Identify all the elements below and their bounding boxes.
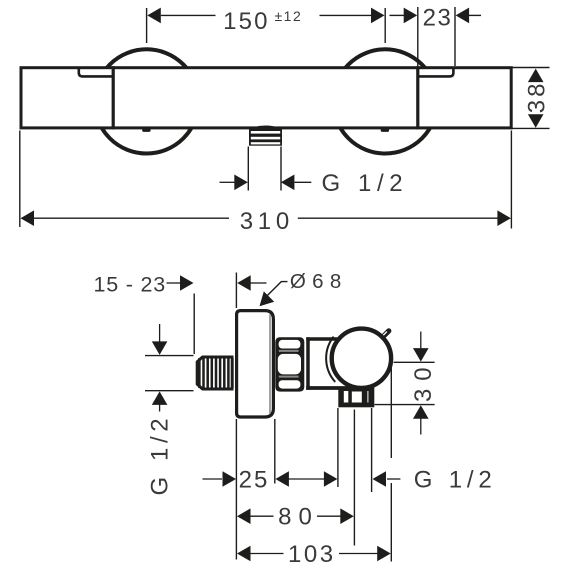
dim tail right (295, 181, 312, 183)
arrowhead 25 right (275, 471, 289, 487)
arrowhead G1/2 left (234, 175, 248, 191)
extension line outlet bottom (375, 404, 435, 406)
arrowhead 38 up (528, 69, 544, 83)
wall tab under left circle (142, 128, 150, 132)
arrowhead 103 right (377, 546, 391, 562)
dim line 103 right part (339, 553, 378, 555)
escutcheon circle right (333, 49, 437, 153)
handle knob circle (332, 329, 391, 388)
arrowhead 80 left (237, 508, 251, 524)
arrowhead 30 top (413, 348, 429, 362)
arrowhead 150 right (371, 8, 385, 24)
dim tail left (220, 181, 235, 183)
hex union nut (side) (275, 337, 304, 391)
dim tail below (420, 418, 422, 435)
arrowhead 23 right (456, 8, 470, 24)
arrowhead 103 left (237, 546, 251, 562)
body left edge (306, 337, 310, 390)
extension line plate front below (235, 419, 237, 560)
arrowhead G1/2 right (281, 175, 295, 191)
cartridge skirt arc (326, 337, 335, 382)
arrowhead 80 right (340, 508, 354, 524)
svg-text:38: 38 (523, 81, 550, 114)
arrowhead 23 left (404, 8, 418, 24)
svg-text:±12: ±12 (275, 8, 303, 24)
leader line diameter 68 (263, 282, 288, 301)
extension line outlet right (280, 147, 282, 191)
extension line nipple bottom (145, 390, 194, 392)
extension line outlet right below (371, 408, 373, 492)
extension line bar left (19, 131, 21, 228)
extension line circle-left centre (146, 8, 148, 43)
dim tail 15-23 (167, 282, 182, 284)
step mark right handle (418, 68, 453, 76)
dim line 80 right part (317, 515, 341, 517)
dim line 150 right part (320, 14, 372, 16)
outlet (side, below knob) (338, 387, 374, 407)
wall nipple G1/2 threaded (197, 357, 233, 389)
divider left handle (112, 66, 115, 129)
dim tail G1/2 right (387, 478, 400, 480)
arrowhead 38 down (528, 114, 544, 128)
extension line bar bottom right (513, 127, 550, 129)
wall tab under right circle (381, 128, 389, 132)
extension line bar right (510, 131, 512, 229)
dim tail after plate face (251, 282, 267, 284)
svg-text:103: 103 (288, 541, 336, 568)
escutcheon plate (side) (237, 311, 274, 417)
dim tail 23 left (390, 14, 405, 16)
arrowhead 30 bottom (413, 405, 429, 419)
dim line 310 left part (34, 217, 230, 219)
svg-text:G 1/2: G 1/2 (146, 414, 173, 496)
dim line 103 left part (250, 553, 284, 555)
step mark left handle (79, 68, 113, 76)
extension line right divider (417, 7, 419, 66)
outlet nipple G1/2 below bar (threaded, front view) (249, 126, 282, 146)
extension line nipple face (193, 294, 195, 355)
handle pin (385, 331, 389, 335)
svg-text:80: 80 (278, 504, 319, 531)
extension line circle-right centre (384, 8, 386, 43)
arrowhead 25 left (223, 471, 237, 487)
svg-text:G 1/2: G 1/2 (414, 467, 497, 494)
extension line step tick (454, 7, 456, 66)
svg-text:23: 23 (423, 4, 453, 31)
arrowhead outlet left (324, 471, 338, 487)
extension line knob front below (390, 362, 392, 458)
body top edge (306, 337, 343, 341)
arrowhead 150 left (147, 8, 161, 24)
extension line outlet mid below (353, 410, 355, 546)
extension line outlet left below (337, 408, 339, 487)
svg-text:150: 150 (223, 8, 270, 35)
arrowhead outlet right (373, 471, 387, 487)
nipple thread lines (198, 358, 201, 388)
dim line between 25 and G1/2 (288, 478, 325, 480)
escutcheon circle left (95, 49, 199, 153)
extension line outlet left (247, 147, 249, 191)
plate inner face line (269, 315, 271, 414)
extension line nipple top (145, 355, 194, 357)
arrowhead 310 right (497, 210, 511, 226)
svg-text:15 - 23: 15 - 23 (94, 273, 167, 297)
dim line 150 left part (161, 14, 216, 16)
extension line plate back below (274, 419, 276, 484)
svg-text:310: 310 (240, 208, 294, 235)
dim line 80 left part (250, 515, 274, 517)
svg-text:30: 30 (410, 359, 437, 402)
nipple outline (197, 357, 233, 389)
mixer bar body (21, 68, 511, 128)
dim tail above (159, 324, 161, 343)
arrowhead 310 left (21, 210, 35, 226)
dim tail 25 left (203, 478, 223, 480)
arrowhead plate face (237, 275, 251, 291)
dim tail below (159, 405, 161, 412)
arrowhead 15-23 (180, 275, 194, 291)
extension line knob axis (394, 361, 435, 363)
dim tail 23 right (469, 14, 481, 16)
svg-text:Ø68: Ø68 (290, 270, 348, 293)
leader arrowhead (260, 291, 275, 306)
arrowhead inlet top (152, 341, 168, 355)
svg-text:25: 25 (239, 467, 270, 494)
body bottom edge (306, 386, 371, 390)
divider right handle (416, 66, 419, 129)
dim tail above (420, 332, 422, 350)
arrowhead inlet bottom (152, 391, 168, 405)
dim line 310 right part (298, 217, 498, 219)
extension line plate face top (235, 273, 237, 309)
svg-text:G 1/2: G 1/2 (322, 170, 409, 197)
valve body (side) (308, 339, 344, 388)
extension line bar top right (513, 67, 550, 69)
